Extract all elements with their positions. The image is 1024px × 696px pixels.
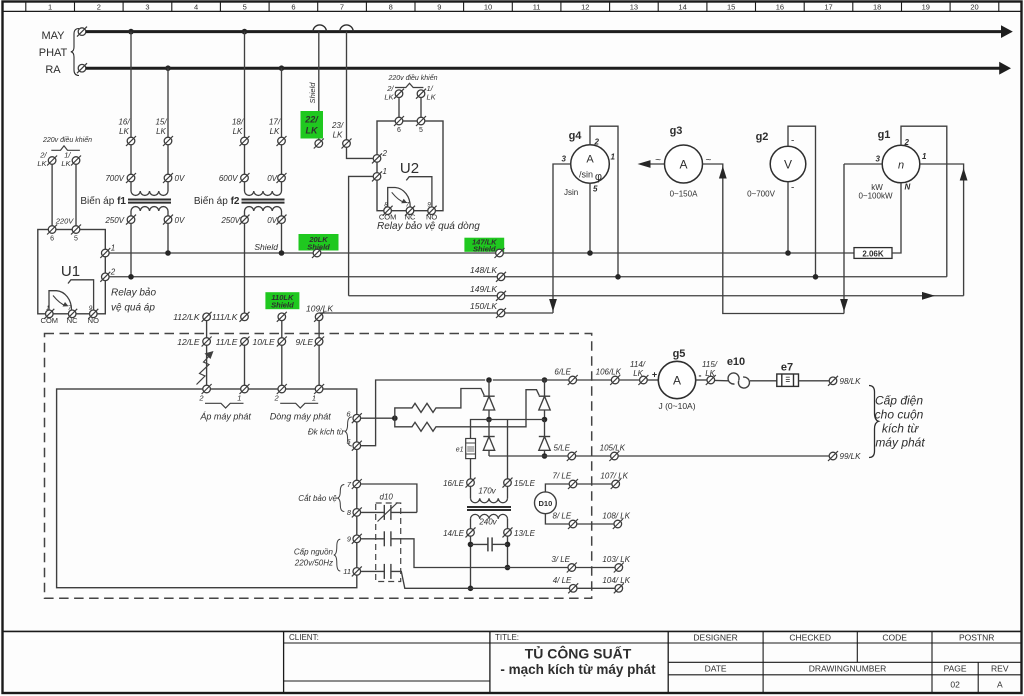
svg-text:1: 1 — [48, 2, 52, 11]
svg-text:LK: LK — [233, 127, 243, 136]
junction cap right — [505, 542, 511, 548]
terminal 7/LE — [568, 479, 578, 489]
svg-text:220V: 220V — [55, 217, 75, 226]
terminal 16/LK — [126, 136, 136, 146]
pin 2 U1 — [100, 272, 110, 282]
svg-text:2: 2 — [594, 138, 600, 147]
terminal 0V f2 primary — [277, 173, 287, 183]
terminal 2/LK U2 — [394, 89, 404, 99]
wire bus tap to 23/LK — [346, 32, 348, 140]
junction 3/LE line — [505, 565, 511, 571]
svg-text:4/ LE: 4/ LE — [553, 576, 572, 585]
junction f1 250V on line148 — [128, 274, 134, 280]
svg-text:LK: LK — [61, 159, 71, 168]
svg-text:REV: REV — [991, 664, 1009, 674]
junction g2 bottom on line147 — [785, 250, 791, 256]
svg-text:0V: 0V — [267, 216, 277, 225]
svg-text:105/LK: 105/LK — [600, 444, 626, 453]
svg-text:LK: LK — [306, 126, 319, 136]
svg-text:/sin: /sin — [579, 170, 593, 180]
brace excitation output — [869, 386, 879, 458]
resistor 2.06K — [854, 248, 892, 259]
svg-text:Đk kích từ: Đk kích từ — [308, 428, 345, 437]
svg-text:1: 1 — [611, 153, 616, 162]
svg-text:15/: 15/ — [155, 118, 167, 127]
terminal 2/LK U1 — [47, 156, 57, 166]
diode D2 — [539, 436, 550, 438]
pin 6 U2 — [394, 116, 404, 126]
terminal 10/LE — [277, 337, 287, 347]
terminal 110LK shield — [277, 312, 287, 322]
svg-text:148/LK: 148/LK — [470, 265, 497, 275]
pin 2 U2 — [372, 153, 382, 163]
terminal 6/LE — [568, 375, 578, 385]
svg-text:U1: U1 — [61, 263, 80, 280]
svg-text:12: 12 — [581, 2, 589, 11]
arrow up on line149 riser — [960, 168, 968, 181]
svg-text:10/LE: 10/LE — [252, 337, 275, 347]
svg-text:22/: 22/ — [304, 115, 319, 125]
svg-text:LK: LK — [633, 369, 643, 378]
wire 14/LE down to 4/LE line — [470, 536, 472, 588]
label Dong may phat — [280, 403, 318, 408]
svg-text:11: 11 — [533, 2, 541, 11]
wire f1 0V down to line 147 — [167, 223, 169, 253]
wire pin9 through NO contact to 3/LE line — [361, 538, 385, 540]
svg-text:220v/50Hz: 220v/50Hz — [294, 559, 333, 568]
terminal 103/LK — [614, 563, 624, 573]
highlight 22/LK — [301, 111, 324, 139]
terminal 600V f2 — [240, 173, 250, 183]
svg-text:17/: 17/ — [269, 118, 281, 127]
svg-text:LK: LK — [427, 93, 437, 102]
wire g1 pin3 drop to chain — [843, 164, 845, 314]
wire pin5 to firing bus top — [361, 380, 486, 446]
svg-text:g4: g4 — [569, 130, 583, 142]
pin NO U2 — [427, 206, 437, 216]
svg-text:1: 1 — [111, 244, 115, 253]
wire 112/LK to 12/LE — [206, 321, 208, 338]
terminal 16/LE — [466, 478, 476, 488]
relay U2 NO contact link — [406, 177, 432, 207]
contactor d10 dashed box — [376, 503, 401, 582]
svg-text:6: 6 — [397, 127, 401, 134]
junction top line at thyristor 1 — [486, 377, 492, 383]
svg-text:20: 20 — [970, 2, 978, 11]
junction cap left — [468, 542, 474, 548]
svg-text:LK: LK — [333, 131, 343, 140]
svg-text:12/LE: 12/LE — [177, 337, 200, 347]
regulator pin 11 — [352, 566, 362, 576]
terminal 17/LK — [277, 136, 287, 146]
wire 11/LE to regulator input 1 — [244, 345, 246, 385]
svg-text:220v điều khiển: 220v điều khiển — [42, 135, 92, 144]
svg-text:LK: LK — [156, 127, 166, 136]
wire f2 250V down to 111/LK — [244, 223, 246, 313]
contact d10 NO b — [383, 564, 385, 579]
svg-text:MAY: MAY — [41, 30, 65, 42]
svg-text:e1: e1 — [456, 447, 464, 454]
wire pin11 through NO contact to 4/LE line — [361, 570, 385, 572]
wire pin8 through NC contact — [361, 511, 385, 513]
svg-text:e7: e7 — [781, 362, 793, 374]
svg-text:13/LE: 13/LE — [514, 529, 536, 538]
svg-text:114/: 114/ — [630, 360, 646, 369]
wire 2.06K to g1 pinN — [892, 183, 901, 253]
wire 9/LE to regulator input 1b — [318, 345, 320, 385]
wire 1/LK to U2 pin5 — [420, 98, 422, 118]
pin COM U1 — [44, 309, 54, 319]
svg-text:11/LE: 11/LE — [216, 337, 238, 347]
arrow up on g3 right drop — [719, 166, 727, 179]
transformer 170v/240v — [470, 486, 472, 498]
terminal 114/LK — [638, 375, 648, 385]
svg-text:NO: NO — [88, 316, 99, 325]
wire 13/LE down to 3/LE line — [507, 536, 509, 567]
svg-text:A: A — [679, 158, 687, 172]
svg-text:9: 9 — [427, 202, 431, 209]
svg-text:Shield: Shield — [473, 244, 496, 253]
pin 5 U1 — [71, 225, 81, 235]
svg-text:DATE: DATE — [705, 664, 727, 674]
regulator pin 6 — [352, 413, 362, 423]
svg-text:5: 5 — [243, 2, 247, 11]
svg-text:DRAWINGNUMBER: DRAWINGNUMBER — [809, 664, 887, 674]
svg-text:9/LE: 9/LE — [296, 337, 314, 347]
svg-text:150/LK: 150/LK — [470, 301, 497, 311]
svg-text:2: 2 — [274, 394, 280, 403]
pin 1 U2 — [372, 171, 382, 181]
svg-text:0V: 0V — [175, 174, 185, 183]
svg-text:Shield: Shield — [271, 301, 294, 310]
svg-text:98/LK: 98/LK — [840, 377, 862, 386]
junction f1 0V on line147 — [165, 250, 171, 256]
wire 18/LK to 600V — [244, 145, 246, 174]
svg-text:02: 02 — [950, 680, 960, 690]
pin NC U2 — [405, 206, 415, 216]
svg-text:9: 9 — [437, 2, 441, 11]
svg-text:Biến áp f1: Biến áp f1 — [80, 195, 126, 207]
wire bus tap to 22/LK shield pair — [318, 32, 320, 140]
junction mid node T2 — [542, 417, 548, 423]
svg-text:7: 7 — [68, 305, 72, 312]
svg-text:115/: 115/ — [702, 360, 718, 369]
wire pin7 loop — [361, 484, 417, 512]
svg-text:LK: LK — [119, 127, 129, 136]
svg-text:13: 13 — [630, 2, 638, 11]
junction f2 0V on line147 — [279, 250, 285, 256]
terminal 98/LK — [828, 376, 838, 386]
wire 6/LE line — [493, 379, 569, 381]
svg-text:0~100kW: 0~100kW — [858, 192, 892, 201]
terminal 108/LK — [613, 519, 623, 529]
svg-text:-: - — [699, 371, 702, 381]
terminal 700V f1 — [126, 173, 136, 183]
terminal 20LK on line 147 — [312, 248, 322, 258]
wire e1 bottom to 16/LE — [470, 459, 472, 479]
terminal 15/LE — [503, 478, 513, 488]
svg-text:7: 7 — [340, 2, 344, 11]
svg-text:LK: LK — [270, 127, 280, 136]
svg-text:e10: e10 — [727, 356, 745, 368]
regulator unit box — [57, 389, 357, 588]
svg-text:Cắt bảo vệ: Cắt bảo vệ — [298, 494, 337, 503]
highlight 147LK Shield — [464, 238, 504, 252]
svg-text:-: - — [791, 183, 794, 194]
terminal 104/LK — [614, 583, 624, 593]
junction D2 on 5/LE line — [542, 453, 548, 459]
transformer f1 — [130, 182, 132, 191]
svg-text:TỦ CÔNG SUẤT: TỦ CÔNG SUẤT — [525, 645, 632, 662]
svg-text:2: 2 — [904, 138, 910, 147]
regulator dashed enclosure — [45, 334, 592, 599]
capacitor C — [471, 543, 488, 545]
wire f1 250V down to line 148 — [130, 223, 132, 276]
wire 17/LK to 0V — [281, 145, 283, 174]
wire g3 to g4 with arrow — [641, 163, 664, 165]
terminal 150/LK — [496, 308, 506, 318]
svg-text:LK: LK — [37, 159, 47, 168]
svg-text:POSTNR: POSTNR — [959, 633, 994, 643]
svg-text:16/LE: 16/LE — [443, 479, 465, 488]
svg-text:d10: d10 — [380, 493, 394, 502]
terminal 250V f1 — [126, 215, 136, 225]
terminal 3/LE — [567, 563, 577, 573]
thyristor T2 — [544, 380, 546, 396]
svg-text:+: + — [652, 370, 657, 380]
CT hump left on upper bus — [313, 25, 326, 32]
wire 105/LK to 99/LK — [618, 455, 829, 457]
junction top line at thyristor 2 — [542, 377, 548, 383]
junction upper bus to f1 — [128, 29, 134, 35]
wire mid tie T1 to T2 — [489, 419, 545, 421]
svg-text:2: 2 — [110, 267, 116, 276]
svg-text:g2: g2 — [756, 131, 769, 143]
junction 4/LE line — [468, 586, 474, 592]
svg-text:250V: 250V — [104, 216, 124, 225]
regulator pin 7 — [352, 479, 362, 489]
relay U1 rotary symbol — [49, 291, 72, 314]
svg-text:14: 14 — [678, 2, 686, 11]
wire g4 pin3 to line150 — [553, 164, 571, 313]
pin COM U2 — [383, 206, 393, 216]
terminal 0V f1 secondary — [163, 215, 173, 225]
terminal 106/LK — [610, 375, 620, 385]
terminal 250V f2 — [240, 215, 250, 225]
regulator pin 2 voltage — [202, 384, 212, 394]
highlight 110LK Shield — [265, 292, 299, 309]
svg-text:CLIENT:: CLIENT: — [289, 633, 319, 642]
svg-text:3: 3 — [145, 2, 149, 11]
junction resistor node — [392, 415, 398, 421]
svg-text:Áp máy phát: Áp máy phát — [199, 412, 251, 422]
svg-text:0~700V: 0~700V — [747, 190, 775, 199]
wire 1/LK to U1 pin5 — [75, 164, 77, 225]
terminal 148/LK — [496, 272, 506, 282]
wire mid node down to 15/LE — [507, 420, 509, 479]
svg-text:6/LE: 6/LE — [554, 368, 571, 377]
terminal 8/LE — [568, 519, 578, 529]
title block — [3, 630, 1022, 632]
svg-text:Shield: Shield — [254, 242, 278, 252]
svg-text:7/ LE: 7/ LE — [553, 472, 572, 481]
wire U2 pin1 to line 149 — [349, 176, 374, 295]
svg-text:11: 11 — [343, 567, 351, 576]
junction g4 loop on line 148 — [615, 274, 621, 280]
terminal 105/LK — [609, 451, 619, 461]
terminal 149/LK — [496, 291, 506, 301]
wire pin6 to resistor node — [361, 417, 395, 419]
svg-text:1: 1 — [312, 394, 316, 403]
wire bus to 18/LK — [244, 32, 246, 138]
relay U2 rotary symbol — [388, 188, 411, 211]
junction g4 pin5 on line147 — [587, 250, 593, 256]
svg-text:2: 2 — [198, 394, 204, 403]
svg-text:2.06K: 2.06K — [862, 249, 884, 258]
svg-text:15/LE: 15/LE — [514, 479, 536, 488]
terminal 22/LK — [314, 139, 324, 149]
wire lower generator bus — [86, 67, 1000, 70]
svg-text:5: 5 — [74, 236, 78, 243]
wire bus to 17/LK — [281, 68, 283, 137]
pin NC U1 — [67, 309, 77, 319]
svg-text:112/LK: 112/LK — [173, 312, 200, 322]
svg-text:-: - — [791, 136, 794, 147]
svg-text:0V: 0V — [267, 174, 277, 183]
svg-text:15: 15 — [727, 2, 735, 11]
svg-text:vệ quá áp: vệ quá áp — [111, 303, 155, 314]
junction lower bus to f2 — [279, 65, 285, 71]
terminal 111/LK — [240, 312, 250, 322]
svg-text:104/ LK: 104/ LK — [602, 576, 630, 585]
junction lower bus to f1 — [165, 65, 171, 71]
wire e1 top to mid node — [471, 420, 490, 439]
svg-text:250V: 250V — [220, 216, 240, 225]
svg-text:106/LK: 106/LK — [596, 368, 622, 377]
regulator pin 5 — [352, 441, 362, 451]
svg-text:Relay bảo vệ quá dòng: Relay bảo vệ quá dòng — [377, 220, 480, 232]
regulator pin 2 current — [277, 384, 287, 394]
svg-text:Relay bảo: Relay bảo — [111, 287, 156, 299]
svg-text:17: 17 — [824, 2, 832, 11]
wire 2/LK to U1 pin6 — [51, 164, 53, 225]
svg-text:23/: 23/ — [331, 121, 344, 130]
wire upper generator bus — [86, 30, 1002, 33]
svg-text:kích từ: kích từ — [882, 422, 920, 436]
wire 23/LK to U2 terminal 2 — [347, 148, 373, 159]
svg-text:10: 10 — [484, 2, 492, 11]
wire e7 to 98/LK — [799, 380, 830, 382]
svg-text:2: 2 — [382, 149, 388, 158]
wire line 149 — [349, 295, 964, 297]
svg-text:LK: LK — [705, 369, 715, 378]
svg-text:g5: g5 — [673, 348, 686, 360]
svg-text:D10: D10 — [539, 499, 553, 508]
arrow down on g4 pin3 drop — [549, 299, 557, 312]
CT hump right on upper bus — [340, 25, 353, 32]
terminal 0V f1 primary — [163, 173, 173, 183]
svg-text:A: A — [586, 154, 594, 166]
terminal 9/LE — [314, 337, 324, 347]
svg-text:600V: 600V — [219, 174, 238, 183]
svg-text:170v: 170v — [478, 487, 496, 496]
relay D10 — [535, 492, 557, 514]
svg-text:- mạch kích từ máy phát: - mạch kích từ máy phát — [500, 662, 656, 677]
wire bus to 16/LK — [130, 32, 132, 138]
terminal 107/LK — [611, 479, 621, 489]
svg-text:700V: 700V — [105, 174, 124, 183]
diode D1 — [483, 436, 494, 438]
svg-text:φ: φ — [595, 171, 602, 183]
transformer f2 — [244, 182, 246, 191]
svg-text:107/ LK: 107/ LK — [600, 472, 628, 481]
svg-text:A: A — [673, 374, 681, 388]
svg-text:16: 16 — [776, 2, 784, 11]
relay U1 box — [38, 230, 106, 314]
svg-text:16/: 16/ — [118, 118, 130, 127]
svg-text:14/LE: 14/LE — [443, 529, 465, 538]
wire g4 pin2 loop to line148 — [590, 126, 618, 277]
pin 5 U2 — [416, 116, 426, 126]
svg-text:Jsin: Jsin — [564, 188, 578, 197]
terminal lower bus — [77, 63, 87, 73]
svg-text:g3: g3 — [670, 125, 683, 137]
regulator pin 8 — [352, 507, 362, 517]
wire 110LK to 10/LE — [281, 321, 283, 338]
pin 6 U1 — [47, 225, 57, 235]
terminal 115/LK — [706, 375, 716, 385]
svg-text:J (0~10A): J (0~10A) — [658, 401, 695, 411]
svg-text:18: 18 — [873, 2, 881, 11]
svg-text:g1: g1 — [878, 129, 891, 141]
wire line 147 from U1 pin1 — [109, 252, 854, 254]
terminal 4/LE — [568, 583, 578, 593]
wire f2 0V shield down to line 147 — [281, 223, 283, 253]
svg-text:0V: 0V — [175, 216, 185, 225]
arrow down on g1 pin3 drop — [840, 299, 848, 312]
svg-text:9: 9 — [89, 305, 93, 312]
svg-text:0~150A: 0~150A — [670, 190, 698, 199]
terminal 1/LK U2 — [416, 89, 426, 99]
svg-text:1: 1 — [383, 167, 387, 176]
svg-text:103/ LK: 103/ LK — [602, 555, 630, 564]
wire D10 bottom to 8/LE — [545, 514, 569, 524]
svg-text:3/ LE: 3/ LE — [551, 555, 570, 564]
svg-text:109/LK: 109/LK — [306, 303, 333, 313]
terminal 23/LK — [342, 139, 352, 149]
thyristor T1 — [488, 380, 490, 396]
junction mid node T1 — [486, 417, 492, 423]
terminal 11/LE — [240, 337, 250, 347]
regulator pin 1 voltage — [240, 384, 250, 394]
svg-text:COM: COM — [41, 316, 59, 325]
contact d10 NO a — [383, 531, 385, 546]
svg-text:n: n — [898, 160, 904, 172]
terminal 14/LE — [466, 527, 476, 537]
wire 5/LE line — [489, 455, 568, 457]
terminal 18/LK — [240, 136, 250, 146]
wire line 150 — [319, 312, 553, 314]
svg-text:CODE: CODE — [882, 633, 907, 643]
svg-text:149/LK: 149/LK — [470, 284, 497, 294]
wire 109/LK to 9/LE — [318, 321, 320, 338]
svg-text:RA: RA — [45, 64, 61, 76]
junction g2 loop on line148 — [813, 274, 819, 280]
wire g2 top loop to line148 — [788, 126, 816, 277]
label Ap may phat — [205, 403, 244, 408]
svg-text:Biến áp f2: Biến áp f2 — [194, 195, 240, 207]
regulator pin 1 current — [314, 384, 324, 394]
